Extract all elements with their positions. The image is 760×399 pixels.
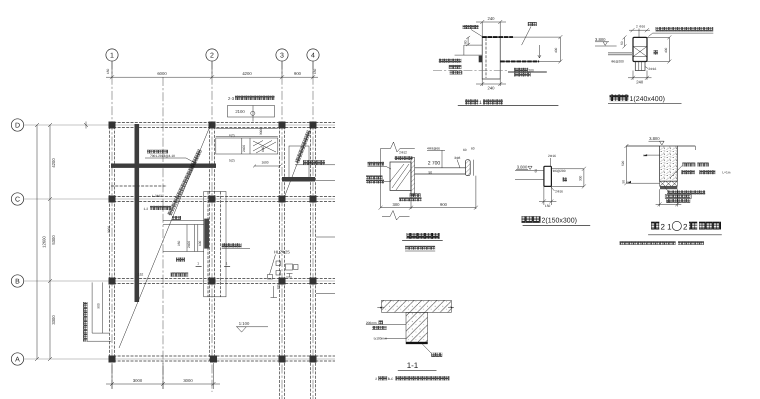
svg-text:5(2): 5(2) xyxy=(229,159,235,163)
svg-text:60: 60 xyxy=(471,147,475,151)
svg-text:7001-20L3@4-10: 7001-20L3@4-10 xyxy=(150,154,175,158)
wall row A xyxy=(109,355,335,357)
door opening schedule table top xyxy=(228,106,275,122)
wall col 2 xyxy=(209,122,211,361)
left label stack xyxy=(439,59,462,75)
svg-text:100: 100 xyxy=(261,146,265,152)
top dimension line xyxy=(106,62,318,79)
svg-text:5300: 5300 xyxy=(51,235,56,245)
rotated label along diagonal xyxy=(167,149,202,216)
svg-text:1: 1 xyxy=(197,262,199,266)
svg-text:2Φ16: 2Φ16 xyxy=(555,190,563,194)
svg-text:3000: 3000 xyxy=(133,378,143,383)
grid row line A xyxy=(24,358,335,360)
svg-text:100: 100 xyxy=(198,240,202,246)
long top-right note xyxy=(656,27,714,31)
gray slab lines left xyxy=(608,52,633,54)
left dimension lines xyxy=(35,123,56,361)
title beam1 end joint xyxy=(465,99,478,104)
svg-text:2Φ16: 2Φ16 xyxy=(648,67,656,71)
small elevation marker cluster right of col2-3 B row xyxy=(268,249,299,297)
leader to right labels xyxy=(295,164,335,166)
grid bubble 2 xyxy=(206,49,218,61)
svg-text:150: 150 xyxy=(313,68,317,74)
small note xyxy=(620,241,676,245)
svg-text:3000: 3000 xyxy=(259,128,263,135)
columns row B xyxy=(109,278,116,285)
stair plan detail C-B bay xyxy=(163,216,204,262)
section mark 1 left xyxy=(196,262,202,267)
svg-text:152: 152 xyxy=(138,273,144,277)
stem hatched xyxy=(406,312,428,344)
svg-text:240: 240 xyxy=(488,16,496,21)
svg-text:2: 2 xyxy=(210,53,214,60)
svg-text:2Φ16: 2Φ16 xyxy=(548,154,556,158)
room D2-D3 door opening outline xyxy=(216,128,282,168)
room C3-D4 box xyxy=(289,146,309,178)
bottom labels xyxy=(410,193,421,197)
svg-text:1: 1 xyxy=(226,262,228,266)
left dim 520 xyxy=(625,146,627,183)
svg-text:50: 50 xyxy=(622,180,626,184)
wall col 4 xyxy=(310,122,312,399)
stair enclosure column 2 C-B xyxy=(204,192,226,297)
wall row C xyxy=(109,196,335,198)
top slab left xyxy=(626,145,660,147)
svg-text:60: 60 xyxy=(463,148,467,152)
svg-text:150: 150 xyxy=(106,68,110,74)
svg-text:50: 50 xyxy=(620,41,624,45)
hatched beam bar row mid-right xyxy=(282,177,315,182)
hanging bar label xyxy=(422,344,431,353)
right vertical dim xyxy=(559,37,561,61)
svg-text:6(2): 6(2) xyxy=(229,133,235,137)
beam label text xyxy=(145,150,196,164)
grid line 1 (vertical dash-dot) xyxy=(111,61,113,390)
svg-text:150: 150 xyxy=(545,204,551,208)
svg-text:50: 50 xyxy=(429,170,433,174)
grid line 2 xyxy=(211,61,213,393)
right labels xyxy=(670,166,682,179)
beam body xyxy=(482,37,500,79)
gray slab line xyxy=(508,71,547,73)
svg-text:3.800: 3.800 xyxy=(649,136,660,141)
svg-text:2: 2 xyxy=(683,222,688,231)
grid bubble 3 xyxy=(276,49,288,61)
slab hatched xyxy=(382,300,452,312)
label new diagonal bar xyxy=(463,25,483,37)
svg-text:1:100: 1:100 xyxy=(239,321,250,326)
svg-text:4: 4 xyxy=(311,53,315,60)
wall bottom block with X xyxy=(660,181,678,186)
columns row C xyxy=(109,196,116,203)
svg-text:3000: 3000 xyxy=(183,378,193,383)
svg-text:L=1m: L=1m xyxy=(722,171,730,175)
top dim 240 xyxy=(476,21,506,23)
svg-text:C: C xyxy=(15,197,20,204)
small left dim xyxy=(467,37,469,45)
left slab line xyxy=(515,169,544,171)
bottom dim 240 xyxy=(481,79,483,86)
svg-text:Φ16: Φ16 xyxy=(639,25,645,29)
svg-text:400: 400 xyxy=(664,47,668,53)
wall body speckled xyxy=(660,146,678,181)
section mark 1 right xyxy=(224,262,230,267)
svg-text:400: 400 xyxy=(554,47,558,53)
left door opening A-B with 900 dim xyxy=(83,282,111,341)
columns row A xyxy=(109,356,116,363)
bottom dim 50 xyxy=(659,189,661,206)
grid line 3 xyxy=(281,61,283,399)
right dim 400 xyxy=(647,36,669,38)
svg-text:50: 50 xyxy=(534,169,538,173)
title xyxy=(651,222,659,230)
svg-text:D: D xyxy=(15,123,20,130)
grid row line C xyxy=(24,198,335,200)
grid bubble B xyxy=(11,275,23,287)
svg-text:3Φ8: 3Φ8 xyxy=(454,156,460,160)
bottom dimension line xyxy=(106,363,220,389)
svg-text:2-3: 2-3 xyxy=(228,96,235,101)
svg-text:B-C: B-C xyxy=(388,377,394,381)
right label stack xyxy=(514,68,534,77)
svg-text:300: 300 xyxy=(393,202,401,207)
grid bubble 4 xyxy=(307,49,319,61)
bottom labels xyxy=(664,186,668,191)
wall row D (double dashed) xyxy=(109,122,335,124)
rotated label along diagonal 2 xyxy=(295,130,311,163)
title beam2 150x300 xyxy=(522,216,541,223)
end marks xyxy=(377,307,454,309)
svg-text:900: 900 xyxy=(97,303,101,309)
svg-text:1(240x400): 1(240x400) xyxy=(630,95,665,103)
svg-text:2100: 2100 xyxy=(235,109,245,114)
stem bottom thick xyxy=(406,342,428,344)
left wall line with breaks xyxy=(380,149,382,208)
grid bubble 1 xyxy=(106,49,118,61)
svg-text:300: 300 xyxy=(578,175,582,181)
svg-text:80: 80 xyxy=(464,40,468,44)
svg-text:2400: 2400 xyxy=(187,241,191,248)
label plate anchor bottom xyxy=(171,273,189,277)
svg-text:950: 950 xyxy=(177,240,181,246)
svg-text:t≥100mm: t≥100mm xyxy=(374,337,388,341)
wall body xyxy=(390,162,411,191)
center dash-dot line xyxy=(433,70,508,72)
jamb strip xyxy=(411,158,415,196)
svg-text:4200: 4200 xyxy=(242,71,252,76)
left small dim 50 xyxy=(624,37,626,46)
grid bubble A xyxy=(11,353,23,365)
leaders left xyxy=(366,324,406,326)
lintel beam lines xyxy=(415,167,466,169)
grid row line B xyxy=(24,280,335,282)
svg-text:180: 180 xyxy=(277,284,281,290)
top slab rebar (thick dashed) xyxy=(482,36,513,38)
svg-text:240: 240 xyxy=(636,79,644,84)
bottom left line xyxy=(626,182,660,184)
svg-text:2: 2 xyxy=(375,377,377,381)
svg-text:6000: 6000 xyxy=(157,71,167,76)
svg-text:2(150x300): 2(150x300) xyxy=(542,217,577,225)
svg-text:1600: 1600 xyxy=(261,161,268,165)
svg-text:3900: 3900 xyxy=(107,226,111,233)
wall col 1 xyxy=(109,122,111,361)
svg-text:900: 900 xyxy=(440,202,448,207)
bottom dim 240 xyxy=(632,71,634,80)
diagonal brace 3-4 bay xyxy=(284,125,312,199)
svg-text:12600: 12600 xyxy=(42,236,47,248)
beam body xyxy=(544,166,552,186)
title beam1 240x400 xyxy=(610,95,629,102)
grid bubble D xyxy=(11,119,23,131)
lower slab rebar right xyxy=(500,60,539,62)
svg-text:3.800: 3.800 xyxy=(595,37,606,42)
svg-text:3: 3 xyxy=(280,53,284,60)
top dim ticks xyxy=(629,29,650,31)
svg-text:240: 240 xyxy=(488,86,496,91)
slope arrow 1:100 xyxy=(236,321,268,332)
bottom dims xyxy=(410,163,412,209)
tick on row D left xyxy=(84,122,88,129)
left step slab xyxy=(464,44,482,46)
long diagonal brace 1-2 bay xyxy=(119,122,212,348)
svg-text:2: 2 xyxy=(636,25,638,29)
svg-text:4200: 4200 xyxy=(51,158,56,168)
label 2-3 axis door line xyxy=(228,96,275,101)
label 1-2 axis door xyxy=(144,206,172,211)
svg-text:900: 900 xyxy=(294,71,302,76)
svg-text:1: 1 xyxy=(110,53,114,60)
grid line 4 xyxy=(312,61,314,399)
svg-text:1-1: 1-1 xyxy=(407,361,419,370)
left labels xyxy=(366,162,391,184)
strengthened beam (horizontal hatched bar) xyxy=(111,164,216,168)
svg-text:200mm: 200mm xyxy=(366,321,377,325)
svg-text:200: 200 xyxy=(529,69,535,73)
right jamb block xyxy=(466,160,471,176)
svg-text:Φ6@200: Φ6@200 xyxy=(553,169,566,173)
title new door opening xyxy=(407,233,440,239)
svg-text:A: A xyxy=(15,357,20,364)
grid bubble C xyxy=(11,193,23,205)
stem below xyxy=(635,62,645,71)
bottom dim 150 xyxy=(543,186,545,205)
svg-text:2 1: 2 1 xyxy=(661,222,673,231)
beam section body xyxy=(633,37,647,61)
label rebar anchor xyxy=(222,243,250,248)
svg-text:2400: 2400 xyxy=(242,145,246,152)
beam line D-C bay1 xyxy=(111,185,167,187)
grid line mid 1-2 xyxy=(162,77,164,389)
wall row B xyxy=(109,278,335,280)
columns row D xyxy=(109,122,116,129)
svg-text:HL2Φ25: HL2Φ25 xyxy=(274,249,290,254)
svg-text:3300: 3300 xyxy=(51,315,56,325)
label slab xyxy=(522,22,537,45)
wall col 3 xyxy=(279,122,281,399)
svg-text:3.800: 3.800 xyxy=(517,165,528,170)
labels xyxy=(366,320,387,340)
svg-text:2 700: 2 700 xyxy=(428,160,441,166)
svg-text:B: B xyxy=(15,279,20,286)
svg-text:2Φ12: 2Φ12 xyxy=(399,150,407,154)
svg-text:520: 520 xyxy=(621,160,625,166)
right dim 300 xyxy=(551,168,584,170)
svg-text:Φ6@200: Φ6@200 xyxy=(611,59,624,63)
strengthened wall (vertical hatched bar) xyxy=(135,124,140,302)
grid row line D xyxy=(24,124,335,126)
svg-text:1-2: 1-2 xyxy=(144,207,149,211)
top line right with hook xyxy=(677,145,695,147)
svg-text:L-2402: L-2402 xyxy=(152,194,162,198)
svg-text:4Φ9@66: 4Φ9@66 xyxy=(427,146,440,150)
